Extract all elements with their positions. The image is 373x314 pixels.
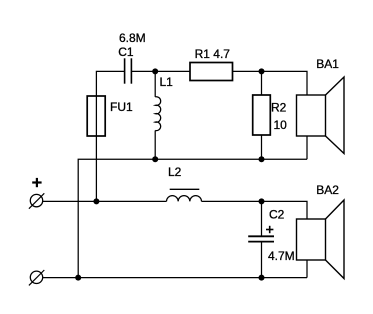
wire: L1 branch lower stub: [154, 131, 156, 160]
inductor L1: [155, 97, 160, 131]
junction dot: R1/R2 top node: [259, 68, 265, 74]
svg-text:FU1: FU1: [110, 100, 133, 114]
speaker BA2: [297, 200, 345, 279]
capacitor C2 polarity plus sign: [266, 226, 273, 233]
wire: + terminal to node A: [43, 200, 96, 202]
junction dot: C2 bottom node: [259, 275, 265, 281]
wire: node A to L2: [96, 200, 166, 202]
wire: R2 branch vertical: [261, 71, 263, 159]
wire: fuse branch from node A up through FU1 to top-left corner, then right to C1: [96, 71, 124, 201]
fuse FU1: [87, 96, 105, 136]
wire: R1 to top-right corner, down to BA1: [233, 71, 308, 159]
inductor L2 coil: [167, 196, 202, 202]
svg-text:R2: R2: [271, 101, 287, 115]
wire: top-section bottom rail from BA1 corner to left corner, down to bottom rail: [78, 159, 307, 277]
resistor R2: [253, 95, 271, 135]
speaker BA1: [297, 77, 345, 154]
svg-text:R1 4.7: R1 4.7: [195, 47, 231, 61]
svg-text:C1: C1: [118, 45, 134, 59]
svg-text:4.7M: 4.7M: [268, 249, 295, 263]
junction dot: L1 bottom node: [152, 156, 158, 162]
wire: C1 right plate to R1: [131, 70, 190, 72]
junction dot: bottom rail left node: [75, 275, 81, 281]
wire: L2 to C2 node: [202, 200, 262, 202]
- input terminal: [29, 270, 44, 285]
svg-text:L2: L2: [168, 165, 182, 179]
+ input polarity plus sign: [32, 178, 41, 187]
wire: C2 node to BA2 corner and down: [262, 201, 308, 277]
junction dot: C2 top node: [259, 198, 265, 204]
svg-text:BA1: BA1: [316, 57, 339, 71]
inductor L2 core bar: [170, 188, 200, 190]
capacitor C1 plates: [125, 58, 132, 83]
junction dot: R2 bottom node: [259, 156, 265, 162]
wire: bottom rail from - terminal to BA2 corner: [43, 277, 307, 279]
+ input terminal: [29, 193, 44, 208]
svg-text:6.8M: 6.8M: [119, 31, 146, 45]
svg-text:10: 10: [274, 118, 288, 132]
svg-text:BA2: BA2: [316, 183, 339, 197]
junction dot: node A (fuse output): [93, 198, 99, 204]
resistor R1: [190, 63, 233, 81]
wire: C2 upper lead: [261, 201, 263, 236]
junction dot: C1/L1 top node: [152, 68, 158, 74]
svg-text:L1: L1: [160, 75, 174, 89]
capacitor C2 plates: [248, 236, 274, 241]
wire: C2 lower lead: [261, 242, 263, 278]
svg-text:C2: C2: [269, 208, 285, 222]
wire: L1 branch upper stub: [154, 71, 156, 97]
